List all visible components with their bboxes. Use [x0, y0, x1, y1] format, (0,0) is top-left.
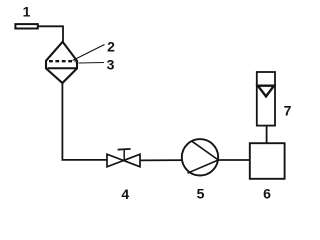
wire pump to box	[218, 159, 250, 161]
valve 4 handle bar	[118, 148, 131, 151]
valve 4 body	[107, 154, 140, 167]
svg-text:5: 5	[197, 186, 205, 200]
wire probe to vessel	[39, 26, 63, 42]
filter element 2 (dashed line)	[49, 60, 76, 62]
svg-text:7: 7	[284, 103, 292, 119]
leader line to 3	[79, 62, 105, 65]
wire box to rotameter	[266, 126, 268, 144]
pump 5 impeller chord upper	[191, 141, 218, 160]
box 6	[250, 143, 285, 179]
pump 5 circle	[182, 139, 218, 175]
sampling probe 1	[15, 24, 37, 28]
svg-text:3: 3	[107, 56, 115, 72]
svg-text:2: 2	[107, 39, 115, 55]
svg-text:4: 4	[121, 186, 129, 200]
valve 4 stem	[123, 149, 125, 160]
leader line to 2	[73, 45, 105, 61]
separator vessel body	[46, 42, 77, 83]
rotameter 7 float (triangle)	[258, 86, 274, 97]
wire vessel to valve	[62, 83, 106, 160]
svg-text:1: 1	[23, 3, 31, 19]
wire valve to pump	[140, 159, 182, 161]
svg-text:6: 6	[263, 186, 271, 200]
pump 5 impeller chord lower	[187, 160, 218, 173]
support plate 3 (solid line)	[48, 67, 78, 69]
rotameter 7 tube	[257, 72, 275, 126]
